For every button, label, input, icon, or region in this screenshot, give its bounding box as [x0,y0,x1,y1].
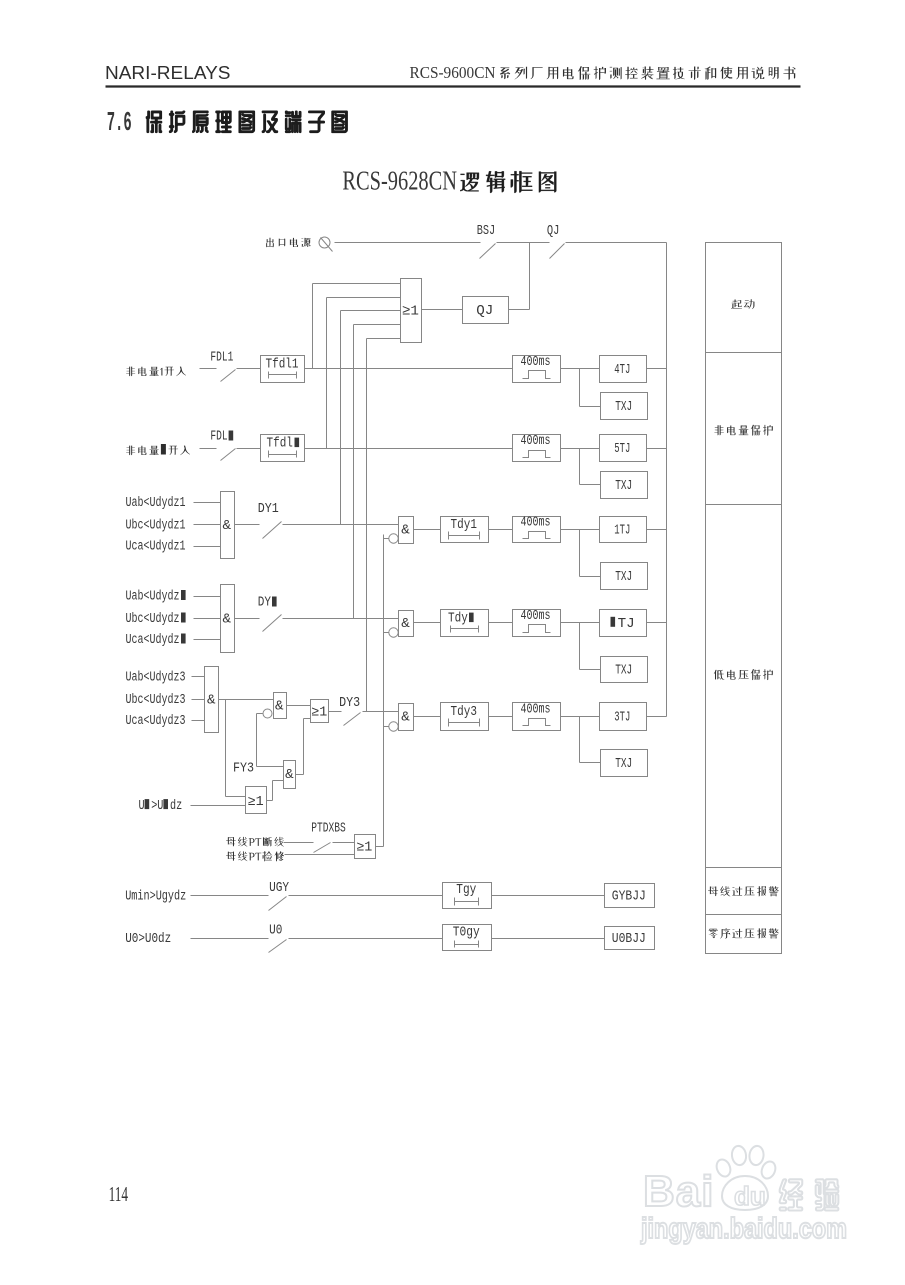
svg-text:400ms: 400ms [521,515,551,531]
svg-text:Ubc<Udydz3: Ubc<Udydz3 [126,693,186,708]
svg-text:RCS-9600CN: RCS-9600CN [410,63,496,82]
svg-text:&: & [222,518,231,534]
svg-text:Uab<Udydz1: Uab<Udydz1 [126,496,186,511]
svg-text:RCS-9628CN: RCS-9628CN [342,166,457,196]
svg-text:T0gy: T0gy [453,926,480,941]
svg-text:TXJ: TXJ [615,662,632,678]
svg-text:dz: dz [170,799,182,814]
svg-text:7.6: 7.6 [107,109,132,139]
svg-text:1TJ: 1TJ [614,522,630,538]
svg-text:GYBJJ: GYBJJ [612,888,646,904]
svg-text:FY3: FY3 [233,761,254,777]
svg-text:U0BJJ: U0BJJ [612,931,646,947]
svg-text:&: & [401,616,410,632]
svg-text:TJ: TJ [618,616,635,632]
svg-text:DY3: DY3 [339,695,360,711]
svg-text:400ms: 400ms [521,608,551,624]
svg-text:Uca<Udydz: Uca<Udydz [126,633,180,648]
svg-text:≥1: ≥1 [356,840,372,855]
svg-text:&: & [207,693,216,709]
svg-text:TXJ: TXJ [615,399,632,415]
svg-text:≥1: ≥1 [402,304,419,320]
svg-text:DY: DY [258,595,272,611]
svg-text:5TJ: 5TJ [614,441,630,457]
svg-text:jingyan.baidu.com: jingyan.baidu.com [640,1213,847,1245]
svg-text:Uab<Udydz: Uab<Udydz [126,590,180,605]
svg-text:TXJ: TXJ [615,569,632,585]
svg-text:&: & [285,767,294,783]
svg-text:Ubc<Udydz1: Ubc<Udydz1 [126,519,186,534]
svg-text:DY1: DY1 [258,501,279,517]
svg-text:Uca<Udydz3: Uca<Udydz3 [126,714,186,729]
svg-text:TXJ: TXJ [615,756,632,772]
svg-text:FDL1: FDL1 [210,350,233,366]
svg-text:4TJ: 4TJ [614,362,630,378]
svg-text:BSJ: BSJ [477,223,495,239]
svg-text:>U: >U [151,799,163,814]
svg-text:du: du [734,1181,766,1211]
svg-text:&: & [222,612,231,628]
svg-text:TXJ: TXJ [615,478,632,494]
svg-text:≥1: ≥1 [248,795,264,810]
svg-text:Tdy: Tdy [448,612,468,627]
svg-text:FDL: FDL [210,429,227,445]
svg-text:QJ: QJ [476,303,493,319]
svg-text:&: & [275,699,284,715]
svg-text:Uca<Udydz1: Uca<Udydz1 [126,540,186,555]
svg-text:&: & [401,710,410,726]
svg-text:114: 114 [109,1182,129,1206]
svg-text:Umin>Ugydz: Umin>Ugydz [125,889,186,904]
svg-text:Tdy3: Tdy3 [451,705,477,720]
svg-text:Tfdl1: Tfdl1 [266,358,299,373]
svg-text:3TJ: 3TJ [614,709,630,725]
svg-text:Uab<Udydz3: Uab<Udydz3 [126,671,186,686]
svg-text:400ms: 400ms [521,702,551,718]
svg-text:QJ: QJ [547,223,560,239]
svg-text:Bai: Bai [643,1167,714,1216]
svg-text:UGY: UGY [269,880,289,896]
svg-text:NARI-RELAYS: NARI-RELAYS [105,63,231,83]
svg-text:400ms: 400ms [521,433,551,449]
svg-text:U0>U0dz: U0>U0dz [125,932,171,947]
svg-text:≥1: ≥1 [311,705,327,720]
svg-text:Ubc<Udydz: Ubc<Udydz [126,612,180,627]
svg-text:&: & [401,523,410,539]
svg-text:PTDXBS: PTDXBS [311,821,345,837]
svg-text:Tfdl: Tfdl [267,437,293,452]
svg-text:Tdy1: Tdy1 [451,518,477,533]
svg-text:400ms: 400ms [521,354,551,370]
svg-text:Tgy: Tgy [456,883,476,898]
svg-text:U: U [139,799,145,814]
svg-text:U0: U0 [269,923,282,939]
